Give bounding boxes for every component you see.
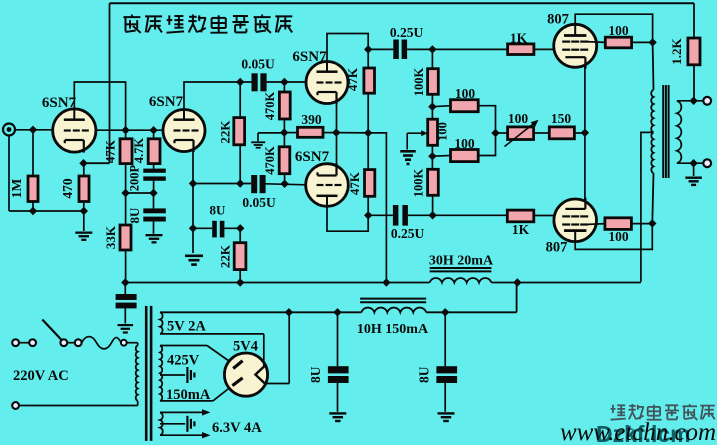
svg-text:30H 20mA: 30H 20mA xyxy=(429,254,494,269)
svg-text:8U: 8U xyxy=(210,203,227,218)
capacitor 0.25U upper xyxy=(393,40,407,60)
wire 8U horiz right xyxy=(224,224,244,232)
tube V1 6SN7 xyxy=(53,109,96,153)
label 470K lower xyxy=(263,146,277,175)
ground below V2 leg xyxy=(185,255,203,266)
wire 33K bottom xyxy=(125,250,127,283)
label 100 pot xyxy=(436,122,450,141)
svg-text:1K: 1K xyxy=(512,222,530,237)
label 1.2K xyxy=(669,37,684,64)
label 47K V4 xyxy=(347,171,362,195)
wire 22K lower top xyxy=(239,228,241,242)
wire V1 right to node row xyxy=(96,129,163,131)
terminal output top xyxy=(703,97,711,105)
label 100 upper 807 xyxy=(608,23,629,38)
node 0.05U-22K top xyxy=(236,78,244,86)
wire 807 cathode column xyxy=(584,65,586,202)
resistor 100K upper xyxy=(428,69,439,95)
label 6.3V 4A xyxy=(212,420,262,436)
wire 807 lower screen out xyxy=(585,223,605,226)
coil PT HV winding xyxy=(160,346,162,401)
label 6SN7 V2 xyxy=(149,94,184,110)
svg-text:470: 470 xyxy=(60,178,75,199)
wire 100K upper top xyxy=(431,49,433,68)
wire input to V1 grid xyxy=(15,129,53,131)
svg-text:807: 807 xyxy=(546,240,568,256)
wire 0.25U upper out xyxy=(407,48,432,50)
wire 807 lower plate bottom xyxy=(575,223,652,249)
core OPT xyxy=(663,85,668,178)
svg-text:47K: 47K xyxy=(345,67,360,91)
wire 390 right xyxy=(323,128,341,136)
wire 47K V4 bottom xyxy=(367,196,369,215)
resistor 100K lower xyxy=(428,169,439,195)
wire OPT primary bottom lead xyxy=(652,173,653,223)
wire 1M top xyxy=(32,130,34,176)
node rail2 5V4 xyxy=(285,308,293,316)
wire 47K V3 top xyxy=(367,49,369,68)
wire OPT secondary bottom xyxy=(677,159,703,167)
label 8U left xyxy=(308,366,323,383)
wire HV center tap xyxy=(160,374,185,376)
svg-text:4.7K: 4.7K xyxy=(132,138,146,164)
label 47K V3 xyxy=(345,67,360,91)
wire rail2 riser xyxy=(516,283,518,313)
wire 100 top right xyxy=(478,106,495,133)
node V1 plate / V2 grid xyxy=(121,126,129,134)
wire 100var arrow xyxy=(505,120,539,147)
svg-text:425V: 425V xyxy=(167,353,200,369)
label 150mA xyxy=(166,387,211,403)
wire 4.7K top xyxy=(153,130,155,139)
terminal fuse left xyxy=(75,339,82,346)
resistor 150 xyxy=(549,127,574,139)
node 470K lower bottom xyxy=(280,180,288,188)
svg-text:100: 100 xyxy=(455,86,476,101)
terminal fuse right xyxy=(121,340,127,346)
wire 1K lower to 807 xyxy=(534,215,554,217)
wire 470K node to ground xyxy=(258,133,284,141)
tube 807 lower xyxy=(554,198,597,243)
wire 100 top left xyxy=(432,106,450,107)
wire 22K lower bottom xyxy=(239,270,241,283)
ground below 8U xyxy=(146,234,163,244)
wire 100K upper bottom xyxy=(431,94,433,106)
wire 1M bottom xyxy=(32,202,34,212)
wire junction to 0.25U upper xyxy=(368,48,393,50)
wire 22K upper bottom xyxy=(239,145,241,184)
svg-text:100: 100 xyxy=(608,23,629,38)
svg-text:10H 150mA: 10H 150mA xyxy=(357,322,429,337)
label 8U right xyxy=(417,366,432,383)
wire 0.05U lower to V4 grid xyxy=(266,184,307,185)
svg-text:www.etchn.com: www.etchn.com xyxy=(560,419,716,445)
choke 30H 20mA xyxy=(430,268,492,283)
label 0.05U upper xyxy=(241,57,275,72)
wire switch to fuse xyxy=(67,342,75,344)
resistor 100 lower 807 xyxy=(605,218,632,230)
svg-text:8U: 8U xyxy=(127,207,142,224)
resistor 470K lower xyxy=(279,147,290,174)
svg-text:100: 100 xyxy=(608,229,629,244)
wire 1.2K top xyxy=(693,3,695,38)
resistor 100 top bridge xyxy=(451,100,479,112)
wire cathode row drop xyxy=(368,133,386,283)
node 47K-33K xyxy=(121,189,129,197)
wire 1K upper to 807 xyxy=(534,48,554,50)
label 6SN7 V3 xyxy=(292,49,327,65)
core PT xyxy=(145,306,153,441)
wire 6.3V bottom lead xyxy=(160,432,211,438)
tube 807 upper xyxy=(554,24,597,69)
svg-text:0.25U: 0.25U xyxy=(390,25,424,40)
wire HV bottom lead xyxy=(160,386,233,401)
wire 100 bottom right xyxy=(478,133,495,156)
node 470K upper top xyxy=(280,78,288,86)
tube V3 6SN7 xyxy=(306,62,348,105)
coil OPT primary upper xyxy=(651,90,653,133)
resistor 470 cathode V1 xyxy=(79,176,89,202)
svg-text:220V AC: 220V AC xyxy=(13,368,69,384)
terminal switch right xyxy=(60,339,67,346)
label 100 bottom bridge xyxy=(454,136,475,151)
node 100K-pot top xyxy=(428,103,436,111)
wire 100 lower to node xyxy=(631,223,652,225)
wire rail2 xyxy=(160,311,361,313)
capacitor 8U left xyxy=(328,366,349,383)
wire 100 upper to node xyxy=(632,41,653,43)
label 100K upper xyxy=(412,67,426,96)
resistor 100 pot body xyxy=(428,119,438,145)
resistor 22K lower xyxy=(234,243,246,270)
svg-text:6SN7: 6SN7 xyxy=(42,95,77,111)
wire 6.3V top lead xyxy=(160,409,211,415)
choke 10H 150mA xyxy=(360,299,426,313)
label 470K upper xyxy=(263,91,277,120)
wire 8U right stem xyxy=(444,312,446,412)
node 4.7K top xyxy=(149,126,157,134)
wire 200P bottom xyxy=(153,181,155,193)
label 5V4 xyxy=(233,339,258,355)
label 100 variable xyxy=(508,111,529,126)
svg-text:47K: 47K xyxy=(103,139,118,163)
ground at 390 node xyxy=(251,141,265,148)
label 8U horizontal xyxy=(210,203,227,218)
wire AC top lead xyxy=(19,342,29,344)
wire 8U top xyxy=(153,193,155,208)
resistor 47K V3 xyxy=(364,68,375,93)
svg-text:100: 100 xyxy=(454,136,475,151)
wire 5V4 filament top riser xyxy=(263,334,265,355)
label 30H 20mA xyxy=(429,254,494,269)
wire secondary ground stem xyxy=(693,163,695,176)
svg-text:0.05U: 0.05U xyxy=(241,57,275,72)
ground 8U left xyxy=(329,412,346,422)
svg-text:150: 150 xyxy=(551,111,572,126)
wire 8U left stem xyxy=(337,312,339,412)
wire OPT center tap xyxy=(641,132,654,282)
capacitor 8U horizontal xyxy=(212,221,224,238)
svg-text:1.2K: 1.2K xyxy=(669,37,684,64)
wire 0.25U lower out xyxy=(408,214,433,216)
wire 5V4 filament bottom out xyxy=(267,312,290,383)
node V4 plate junction xyxy=(364,211,372,219)
terminal AC top xyxy=(12,339,19,346)
wire 470 top xyxy=(83,163,85,176)
svg-text:807: 807 xyxy=(547,12,569,28)
svg-text:6SN7: 6SN7 xyxy=(295,149,330,165)
label 390 xyxy=(301,112,322,127)
svg-text:33K: 33K xyxy=(103,225,118,249)
svg-text:8U: 8U xyxy=(308,366,323,383)
wire to 1K lower xyxy=(433,214,508,216)
wire V4 plate down-over xyxy=(327,206,368,231)
svg-text:100: 100 xyxy=(436,122,450,141)
label 0.25U upper xyxy=(390,25,424,40)
resistor 1.2K feedback xyxy=(688,38,700,65)
label 5V 2A xyxy=(167,319,206,335)
wire rail2 right xyxy=(426,308,516,316)
wire V2 leg ground stem xyxy=(192,228,194,253)
svg-text:6.3V 4A: 6.3V 4A xyxy=(212,420,262,436)
node V3 plate junction xyxy=(364,45,372,53)
terminal switch left xyxy=(29,339,36,346)
wire 807 upper plate top xyxy=(575,14,652,42)
svg-text:47K: 47K xyxy=(347,171,362,195)
capacitor 0.05U lower xyxy=(251,175,265,193)
node 807 cathode node xyxy=(581,129,589,137)
wire V2 cathode row xyxy=(193,183,251,185)
wire HV top lead xyxy=(160,346,233,364)
wire filter main stem xyxy=(124,283,126,324)
wire jack sleeve down xyxy=(8,136,10,212)
wire bridge mid to 100 var xyxy=(496,132,508,134)
wire 5V bottom lead xyxy=(160,333,264,335)
svg-text:0.25U: 0.25U xyxy=(391,226,425,241)
coil PT 5V winding xyxy=(160,312,163,334)
node upper grid node xyxy=(428,45,436,53)
coil PT 6.3V winding xyxy=(160,412,163,435)
resistor 100 upper 807 xyxy=(605,37,631,48)
svg-text:100K: 100K xyxy=(412,67,426,96)
label 1K upper xyxy=(510,31,528,46)
wire OPT secondary top xyxy=(677,97,703,105)
svg-text:5V 2A: 5V 2A xyxy=(167,319,206,335)
svg-text:6SN7: 6SN7 xyxy=(149,94,184,110)
wire 4.7K to 200P xyxy=(153,164,155,169)
label 220V AC xyxy=(13,368,69,384)
svg-text:6SN7: 6SN7 xyxy=(292,49,327,65)
label 1M xyxy=(9,179,24,199)
coil OPT secondary xyxy=(677,101,681,164)
svg-text:100K: 100K xyxy=(412,168,426,197)
resistor 1M xyxy=(28,176,38,202)
terminal AC bottom xyxy=(12,402,19,409)
svg-text:390: 390 xyxy=(301,112,322,127)
capacitor 200P xyxy=(143,169,166,181)
svg-text:470K: 470K xyxy=(263,146,277,175)
resistor 100 bottom bridge xyxy=(451,150,479,162)
resistor 47K V4 xyxy=(365,170,375,197)
wire V2 plate up-over xyxy=(184,82,252,110)
resistor 390 xyxy=(298,127,324,137)
ground HV tap xyxy=(186,367,195,383)
label 0.25U lower xyxy=(391,226,425,241)
watermark Chinese 电子开发社区 xyxy=(611,404,715,420)
wire feedback to V1 cathode xyxy=(84,162,110,164)
wire to 1K upper xyxy=(432,48,507,50)
title text (Chinese) 威廉逊放大器电路 xyxy=(123,15,292,33)
wire 33K top xyxy=(125,193,127,225)
wire V3 cathode down xyxy=(336,94,338,133)
wire 470K lower top xyxy=(283,133,285,147)
watermark teal text xyxy=(596,421,691,445)
capacitor 0.05U upper xyxy=(252,73,267,91)
node lower grid node xyxy=(428,211,436,219)
wire 47K bottom xyxy=(125,164,127,193)
wire pot bottom xyxy=(431,145,433,156)
fuse wavy xyxy=(82,337,121,349)
ground below 470 xyxy=(75,232,92,242)
wire feedback top rail xyxy=(110,3,695,163)
resistor 1K upper grid xyxy=(508,44,534,55)
coil OPT primary lower xyxy=(651,132,653,173)
label 100 top bridge xyxy=(455,86,476,101)
ground output secondary xyxy=(685,177,702,187)
label 1K lower xyxy=(512,222,530,237)
node bridge mid xyxy=(491,129,499,137)
label 0.05U lower xyxy=(242,195,276,210)
terminal output bottom xyxy=(703,159,711,167)
tube 5V4 rectifier xyxy=(224,353,268,396)
tube V2 6SN7 xyxy=(163,110,205,153)
wire 6.3V center tap xyxy=(160,423,185,425)
coil PT primary xyxy=(136,346,138,401)
label 150 xyxy=(551,111,572,126)
wire OPT primary top lead xyxy=(652,42,655,89)
wire pot top xyxy=(431,107,433,120)
svg-text:0.05U: 0.05U xyxy=(242,195,276,210)
wire 470 bottom xyxy=(83,202,85,212)
wire 47K V4 top xyxy=(367,133,369,170)
node rail 33K xyxy=(121,278,129,286)
label 807 lower xyxy=(546,240,568,256)
svg-text:8U: 8U xyxy=(417,366,432,383)
wire 470K lower bottom xyxy=(284,174,286,184)
wire junction to 0.25U lower xyxy=(368,214,393,216)
wire 47K V3 bottom xyxy=(367,93,369,133)
wire V2 cathode down xyxy=(189,151,197,187)
tube V4 6SN7 xyxy=(306,163,349,206)
wire primary top lead xyxy=(127,343,138,346)
wire 22K upper top xyxy=(239,82,241,118)
wire 390 left xyxy=(284,132,297,134)
wire node row 193 xyxy=(126,189,158,197)
wire 100K lower bottom xyxy=(432,195,434,215)
resistor 33K xyxy=(120,225,131,250)
ground filter main xyxy=(118,324,134,334)
label 6SN7 V4 xyxy=(295,149,330,165)
wire primary bottom lead xyxy=(19,401,138,406)
wire V3 plate up-over xyxy=(327,34,368,62)
resistor 100 variable xyxy=(508,127,534,140)
ground 6.3V tap xyxy=(186,416,195,432)
wire 8U horiz left xyxy=(193,227,212,229)
resistor 47K V1 load xyxy=(120,139,132,164)
wire ground bus input xyxy=(9,207,88,215)
label 100 lower 807 xyxy=(608,229,629,244)
wire 100K lower top xyxy=(431,156,433,169)
resistor 4.7K xyxy=(148,139,160,164)
wire B+ rail left xyxy=(125,282,429,284)
node input-1M junction xyxy=(29,126,37,134)
label 22K upper xyxy=(218,120,233,144)
wire pot wiper xyxy=(407,130,427,149)
wire 47K top xyxy=(125,130,127,139)
svg-text:22K: 22K xyxy=(218,120,233,144)
wire 8U bottom xyxy=(153,222,155,234)
switch blade xyxy=(42,320,63,342)
wire 150 to cathode column xyxy=(574,132,585,134)
node pot bottom xyxy=(428,152,436,160)
ground pot wiper xyxy=(400,150,416,165)
svg-text:100: 100 xyxy=(508,111,529,126)
node rail 22K xyxy=(236,278,244,286)
node rail2 8U left xyxy=(333,308,341,316)
wire 470K upper bottom xyxy=(283,119,285,133)
wire V4 cathode up xyxy=(336,133,338,164)
label 470 xyxy=(60,178,75,199)
node rail drop xyxy=(382,278,390,286)
capacitor 0.25U lower xyxy=(393,205,408,226)
label 425V xyxy=(167,353,200,369)
wire B+ rail right xyxy=(491,278,641,286)
node 470K junction xyxy=(280,128,288,136)
label 47K V1 xyxy=(103,139,118,163)
label 4.7K xyxy=(132,138,146,164)
wire 100var to 150 xyxy=(534,132,550,134)
resistor 470K upper xyxy=(279,92,290,119)
wire 807 upper screen out xyxy=(585,41,605,44)
resistor 22K upper xyxy=(234,118,245,145)
wire 100 bottom left xyxy=(432,155,450,158)
label 33K xyxy=(103,225,118,249)
capacitor filter main xyxy=(116,294,137,308)
wire V1 plate up-over xyxy=(74,82,125,130)
svg-text:22K: 22K xyxy=(218,244,233,268)
capacitor 8U decouple xyxy=(143,208,166,221)
ground 8U right xyxy=(438,412,455,422)
label 6SN7 V1 xyxy=(42,95,77,111)
label 10H 150mA xyxy=(357,322,429,337)
node OPT primary top xyxy=(648,38,656,46)
node OPT primary bottom xyxy=(648,219,656,227)
node cathode row V2 xyxy=(236,179,244,187)
resistor 1K lower grid xyxy=(507,210,534,222)
svg-text:1M: 1M xyxy=(9,179,24,199)
wire cathode row to 47K node xyxy=(336,129,372,137)
watermark www.etchn.com xyxy=(560,419,716,445)
svg-text:200P: 200P xyxy=(128,164,142,191)
wire 470K upper top xyxy=(283,82,285,92)
svg-text:1K: 1K xyxy=(510,31,528,46)
label 8U decouple xyxy=(127,207,142,224)
label 807 upper xyxy=(547,12,569,28)
wire 0.05U to V3 grid xyxy=(267,81,307,83)
label 200P xyxy=(128,164,142,191)
label 100K lower xyxy=(412,168,426,197)
input jack xyxy=(3,124,15,136)
